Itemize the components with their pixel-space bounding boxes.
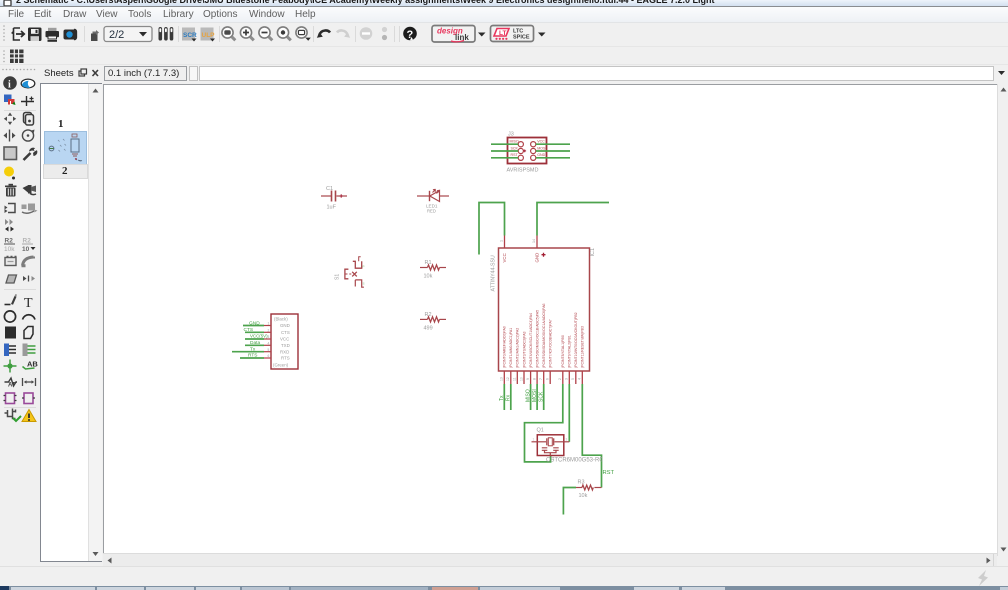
save icon [28,28,42,42]
svg-text:Q1: Q1 [537,428,544,434]
svg-text:1: 1 [533,438,535,442]
toolbar row 1 [0,23,1008,46]
svg-text:9: 9 [526,378,530,380]
wire GND from J3 [536,157,570,159]
svg-text:S: S [363,282,365,286]
cam icon [64,29,77,39]
undo icon [319,30,330,36]
svg-text:AVRISPSMD: AVRISPSMD [507,168,539,174]
resistor R3 [576,485,602,490]
zoom fit icon [222,27,235,40]
wire net VCC top-left of IC [479,203,505,255]
wire net GND top-right of IC [537,203,609,236]
sheet combo 2/2 [104,27,152,42]
svg-text:ULP: ULP [202,32,216,39]
value icon [6,275,17,283]
IC U1 ATTINY44-SSU [499,236,590,372]
wire net MISO below IC [530,384,532,410]
zoom in icon [240,27,253,40]
svg-text:RXD: RXD [280,349,289,354]
display layers icon [4,95,12,103]
group icon [4,147,17,160]
junction tool icon [7,363,12,368]
svg-text:14: 14 [532,239,536,243]
svg-text:2/2: 2/2 [109,29,124,41]
designlink button [432,26,475,43]
resonator Q1 [532,435,570,456]
svg-text:1uF: 1uF [327,205,337,211]
change wrench icon [24,153,31,160]
svg-text:8: 8 [532,378,536,380]
svg-text:T: T [24,296,33,311]
svg-text:5: 5 [268,348,270,352]
svg-text:Rx: Rx [506,394,512,401]
wire CTS to J1 [245,331,264,333]
taskbar sliver [0,586,1008,590]
svg-text:GND: GND [280,323,290,328]
redo icon [337,30,348,36]
svg-text:R3: R3 [578,480,585,486]
svg-text:VCC: VCC [537,140,545,144]
sheet-nav icon [91,30,99,41]
svg-text:(Green): (Green) [273,362,289,367]
frame icon [4,393,17,404]
wire VCC to J1 [245,338,264,340]
svg-text:499: 499 [424,326,433,332]
title bar [0,0,1008,7]
wire net Tx below IC [503,384,505,410]
svg-text:2: 2 [558,378,562,380]
svg-text:(PCINT5/DO/MISO/OC1B/ADC5)PA5: (PCINT5/DO/MISO/OC1B/ADC5)PA5 [535,310,539,368]
svg-text:J3: J3 [508,132,514,138]
LTspice button [491,26,534,42]
svg-text:P: P [363,265,365,269]
svg-text:(PCINT4/USCK/SCL/T1/ADC4)PA4: (PCINT4/USCK/SCL/T1/ADC4)PA4 [529,313,533,368]
svg-text:10k: 10k [4,246,15,253]
library pills icon [159,27,174,41]
left tool column [0,65,40,562]
polygon tool icon [24,327,33,339]
svg-text:RTS: RTS [248,353,258,359]
coord/command row [104,66,187,81]
origin cross IC1 [542,253,546,257]
svg-text:MOSI: MOSI [532,389,538,402]
eye icon [21,79,35,88]
svg-text:Tx: Tx [250,346,256,352]
svg-text:RST: RST [511,153,519,157]
svg-text:SCK: SCK [539,391,545,402]
open icon [12,28,25,40]
errors icon [22,410,36,422]
pinswap icon [5,204,16,214]
svg-text:(Black): (Black) [274,317,288,322]
canvas [103,84,997,553]
stop icon [360,27,373,40]
svg-text:CSTCR6M00G53-R0: CSTCR6M00G53-R0 [546,458,603,464]
svg-text:12: 12 [506,377,510,381]
svg-text:TXD: TXD [281,343,290,348]
wire RXD to J1 [232,351,264,353]
change value icon [4,238,15,254]
rect tool icon [5,327,16,339]
svg-text:3: 3 [565,378,569,380]
wire net MOSI below IC [536,384,538,410]
pin labels inside IC (rotated) [503,303,585,368]
svg-text:R2: R2 [425,312,432,318]
SCR icon [182,28,197,42]
svg-text:GND: GND [534,253,539,263]
print icon [46,28,60,42]
svg-text:SCK: SCK [511,146,519,150]
svg-text:i: i [8,80,11,91]
svg-text:(PCINT6/DI/SDA/MOSI/OC1A/ADC6): (PCINT6/DI/SDA/MOSI/OC1A/ADC6)PA6 [542,303,546,368]
wire RTS to J1 [240,357,264,359]
optimize icon [5,219,14,232]
resistor R2 [420,317,446,322]
svg-text:AT: AT [8,383,16,389]
paint icon [4,167,14,177]
resistor R1 [420,265,446,270]
zoom select icon [296,27,311,41]
name icon [5,257,17,266]
svg-text:6: 6 [546,378,550,380]
pin numbers below IC (rotated) [500,377,582,381]
traffic dots icon [382,27,387,32]
svg-text:3: 3 [268,335,270,339]
svg-text:4: 4 [578,378,582,380]
svg-text:11: 11 [513,377,517,381]
sheet entry 1 label [58,118,64,130]
wire tool icon [5,304,11,306]
svg-text:(PCINT1/AIN0/ADC1)PA1: (PCINT1/AIN0/ADC1)PA1 [509,328,513,368]
svg-text:C1: C1 [326,186,333,192]
svg-text:10k: 10k [424,274,433,280]
switch S1 [345,257,364,287]
svg-text:10: 10 [519,377,523,381]
wire net SCK below IC [543,384,545,410]
frame2 icon [22,393,35,404]
svg-text:(PCINT9/XTAL2)PB1: (PCINT9/XTAL2)PB1 [568,335,572,368]
wire RST net [582,384,601,488]
arc tool icon [23,315,36,320]
svg-text:RST: RST [603,470,615,476]
svg-text:1: 1 [499,240,503,242]
svg-text:MISO: MISO [510,140,519,144]
IC bottom pins group [504,371,582,384]
connector J1 FTDI header [264,314,298,369]
help icon [403,27,417,41]
svg-text:(PCINT3/T0/ADC3)PA3: (PCINT3/T0/ADC3)PA3 [522,331,526,368]
svg-text:10k: 10k [579,493,588,499]
svg-text:ATTINY44-SSU: ATTINY44-SSU [490,255,496,291]
bus tool icon [4,344,9,357]
svg-text:(PCINT8/XTAL1)PB0: (PCINT8/XTAL1)PB0 [561,335,565,368]
svg-text:(PCINT0/AREF/ADC0)PA0: (PCINT0/AREF/ADC0)PA0 [503,326,507,368]
info icon [3,76,17,90]
rotate icon [22,130,33,141]
svg-text:VCC: VCC [502,253,507,262]
svg-text:VCC(5V): VCC(5V) [250,334,268,339]
zoom redraw icon [277,27,290,40]
wire TXD to J1 [245,344,264,346]
dimension icon [23,378,36,386]
svg-text:Data: Data [250,340,260,346]
svg-text:CTS: CTS [281,330,290,335]
wire MISO to J3 [491,143,518,145]
wire GND to J1 [243,325,264,327]
svg-text:(PCINT7/ICP/OC0B/ADC7)PA7: (PCINT7/ICP/OC0B/ADC7)PA7 [549,319,553,368]
capacitor C1 [321,191,347,202]
svg-text:CTS: CTS [244,327,254,333]
move icon [4,113,16,126]
svg-text:(PCINT10/INT0/OC0A/CKOUT)PB2: (PCINT10/INT0/OC0A/CKOUT)PB2 [574,312,578,368]
svg-text:VCC: VCC [280,337,289,342]
delete icon [5,184,17,197]
svg-text:1: 1 [268,322,270,326]
wire XTAL2 to Q1 [568,384,570,442]
net tool icon [23,344,28,357]
sheet 1 thumbnail [44,131,87,165]
wire RST to J3 [491,157,518,159]
svg-text:AB: AB [27,360,38,369]
scrollbars [997,84,1008,556]
change package icon [22,238,36,254]
miter icon [23,257,34,266]
ULP icon [201,28,216,42]
svg-text:13: 13 [500,377,504,381]
svg-text:4: 4 [268,342,270,346]
svg-text:MOSI: MOSI [537,146,546,150]
svg-text:(PCINT2/AIN1/ADC2)PA2: (PCINT2/AIN1/ADC2)PA2 [516,328,520,368]
wire MOSI from J3 [536,150,570,152]
zoom out icon [259,27,272,40]
sheets panel [40,65,103,83]
svg-text:S1: S1 [334,274,340,280]
mirror icon [9,130,11,142]
connector J3 AVRISP header [508,138,547,164]
svg-text:Tx: Tx [499,395,505,401]
copy icon [24,113,34,126]
sheet entry 2 label [43,164,88,179]
replace icon [22,204,38,214]
svg-text:RTS: RTS [281,356,290,361]
wire GND left of R3 [563,488,576,515]
svg-text:2: 2 [268,329,270,333]
circle tool icon [4,311,15,322]
svg-text:(PCINT11/RESET/dW)PB3: (PCINT11/RESET/dW)PB3 [581,326,585,368]
svg-text:10: 10 [22,246,30,253]
grid icon [10,50,24,64]
mark icon [21,96,34,106]
menu bar [0,7,1008,23]
attribute icon [5,378,18,389]
wire SCK to J3 [491,150,518,152]
svg-text:5: 5 [571,378,575,380]
wire XTAL1 to Q1 [525,384,563,462]
wire net Rx below IC [510,384,512,410]
svg-text:IC1: IC1 [590,248,596,257]
LED LED1 [417,189,449,201]
smash icon [23,185,37,194]
pin VCC (top) [504,236,506,249]
gateswap icon [23,276,35,282]
erc icon [5,409,22,422]
toolbar row 2 [0,46,1008,65]
svg-text:LT: LT [499,30,506,37]
svg-text:GND: GND [249,320,260,326]
svg-text:SCR: SCR [183,32,197,39]
svg-text:GND: GND [537,153,545,157]
svg-text:RED: RED [427,209,436,214]
pin GND (top) [536,236,538,249]
svg-text:SPICE: SPICE [513,35,530,41]
svg-text:7: 7 [539,378,543,380]
svg-text:3: 3 [566,438,568,442]
wire VCC from J3 [536,143,570,145]
toolbar overflow chevron [996,68,1008,78]
svg-text:MISO: MISO [526,389,532,402]
svg-text:R1: R1 [425,260,432,266]
svg-text:6: 6 [268,354,270,358]
